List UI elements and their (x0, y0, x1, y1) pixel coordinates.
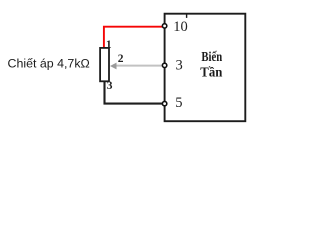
svg-text:3: 3 (176, 57, 183, 73)
potentiometer R (rect body) (100, 48, 109, 81)
stub artifact on top edge (186, 15, 188, 18)
svg-text:2: 2 (118, 53, 124, 65)
svg-text:Chiết áp 4,7kΩ: Chiết áp 4,7kΩ (8, 56, 90, 70)
svg-text:3: 3 (107, 80, 113, 92)
svg-text:Tần: Tần (200, 66, 222, 81)
svg-text:5: 5 (175, 95, 182, 111)
svg-text:Biến: Biến (201, 50, 222, 65)
svg-text:10: 10 (173, 19, 188, 35)
wire: gray wiper from terminal 3 to arrow (116, 65, 162, 67)
terminal circle 5 (162, 101, 166, 105)
svg-text:1: 1 (106, 39, 112, 51)
terminal circle 10 (162, 24, 166, 28)
box: Biến Tần (inverter) (165, 14, 246, 122)
wire: black from potentiometer pin 3 to terminal 5 (105, 81, 163, 104)
terminal circle 3 (162, 63, 166, 67)
wire: red from potentiometer pin 1 to terminal 10 (104, 27, 162, 48)
arrowhead: wiper pin 2 (110, 63, 117, 70)
